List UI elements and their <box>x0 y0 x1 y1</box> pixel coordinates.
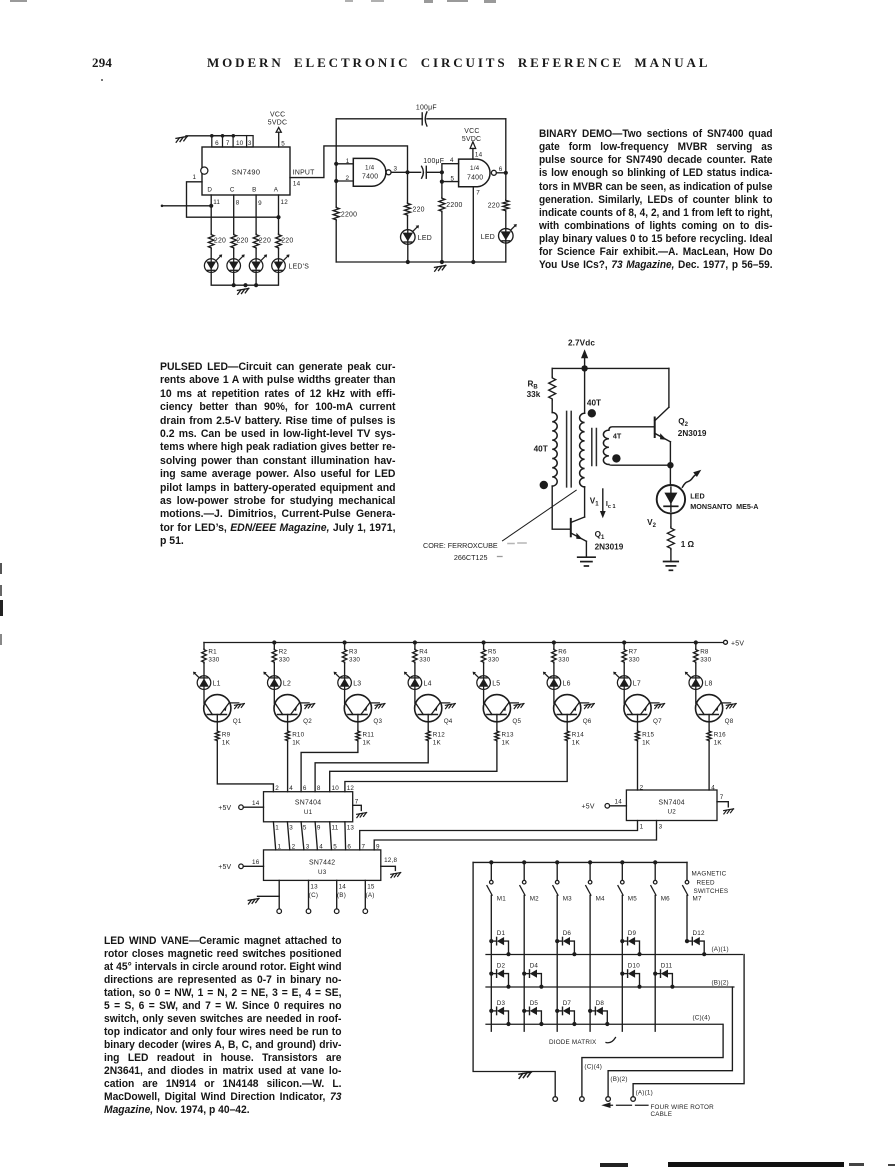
svg-text:(C)(4): (C)(4) <box>693 1014 711 1021</box>
svg-text:9: 9 <box>376 843 380 850</box>
svg-text:INPUT: INPUT <box>293 170 315 177</box>
svg-text:FOUR WIRE ROTOR: FOUR WIRE ROTOR <box>651 1104 715 1111</box>
svg-text:L6: L6 <box>563 680 571 687</box>
svg-text:220: 220 <box>236 238 248 245</box>
resistor 2200 no.2 (G2 input branch) <box>439 182 463 262</box>
svg-text:2: 2 <box>346 175 350 182</box>
resistor R1 330 <box>202 643 220 664</box>
svg-text:1K: 1K <box>433 739 442 746</box>
svg-text:R9: R9 <box>222 732 231 739</box>
G2 pin 7 stub to bottom rail <box>473 187 480 262</box>
svg-text:330: 330 <box>208 656 219 663</box>
wire Q4 base down <box>427 715 429 731</box>
MVBR left rail <box>335 119 337 262</box>
wire stub into pin 11 column <box>161 205 212 208</box>
reed switch matrix top rail <box>473 860 687 864</box>
phasing dot primary <box>540 481 548 489</box>
svg-text:L2: L2 <box>283 680 291 687</box>
svg-text:1K: 1K <box>292 739 301 746</box>
svg-text:4: 4 <box>289 785 293 792</box>
G2 pin 14 stub to VCC <box>473 149 483 160</box>
matrix row (B)(2) <box>486 979 734 987</box>
capacitor 100uF (coupling, middle) <box>422 158 445 178</box>
transistor Q2 2N3019 <box>655 407 707 442</box>
svg-text:1: 1 <box>278 843 282 850</box>
primary winding 40T (left) <box>534 400 558 486</box>
svg-text:8: 8 <box>236 200 240 207</box>
svg-text:3: 3 <box>289 825 293 832</box>
U3 pin 13 (C) terminal <box>306 880 318 913</box>
svg-text:+5V: +5V <box>582 804 595 811</box>
U2 pin 7 to ground <box>717 794 734 814</box>
svg-text:L1: L1 <box>213 680 221 687</box>
svg-text:LED: LED <box>690 491 704 500</box>
diode D3 <box>489 1000 510 1026</box>
svg-text:3: 3 <box>306 843 310 850</box>
wire Q8 base down <box>708 715 710 731</box>
wire secondary bottom to Q1 collector <box>584 487 586 517</box>
wire left bus to ground terminal <box>473 862 555 1096</box>
MVBR bottom rail <box>336 260 506 264</box>
U3 top pin labels 1-7,9 <box>278 843 381 850</box>
U2 top pin labels <box>640 785 716 792</box>
wire row B to terminal (B)(2) <box>608 987 732 1097</box>
node on D column <box>209 204 213 208</box>
svg-text:D2: D2 <box>497 963 506 970</box>
svg-text:14: 14 <box>339 884 347 891</box>
G1 output wire pin 3 <box>391 166 421 173</box>
VCC 5VDC supply arrow (G2) <box>462 128 481 149</box>
supply arrow 2.7Vdc <box>581 349 588 368</box>
resistor R11 1K <box>356 731 375 747</box>
svg-text:330: 330 <box>558 656 569 663</box>
svg-text:100μF: 100μF <box>423 158 444 165</box>
svg-text:330: 330 <box>279 656 290 663</box>
U3 pin 14 (B) terminal <box>334 880 346 913</box>
LED indicator 4 (counter) <box>272 254 290 272</box>
diode D6 <box>555 930 576 956</box>
wire Q5 base to U1 pin 10 <box>330 741 497 792</box>
svg-text:U1: U1 <box>304 809 313 816</box>
svg-text:14: 14 <box>615 798 623 805</box>
wire R7 to L7 <box>623 663 625 676</box>
svg-text:5: 5 <box>303 825 307 832</box>
resistor 220 (bit D) <box>208 234 226 249</box>
svg-text:220: 220 <box>259 238 271 245</box>
label MAGNETIC REED SWITCHES <box>692 871 729 895</box>
svg-text:4T: 4T <box>613 431 622 440</box>
wire R2 to L2 <box>273 663 275 676</box>
wire L2 to Q2 <box>273 689 275 703</box>
VCC 5VDC supply arrow (counter) <box>268 112 287 133</box>
svg-text:(A): (A) <box>366 892 375 899</box>
svg-text:V1: V1 <box>590 496 599 507</box>
label CORE: FERROXCUBE 266CT125 <box>423 541 526 562</box>
node emitter/4T/LED <box>667 462 673 468</box>
transistor Q4 <box>415 695 453 726</box>
svg-text:(C): (C) <box>309 892 318 899</box>
LED MONSANTO ME5-A <box>657 485 685 513</box>
svg-text:9: 9 <box>317 825 321 832</box>
reed switch M5 <box>618 862 637 902</box>
wire Q6 emitter to ground <box>579 702 589 704</box>
transistor Q3 <box>344 695 382 726</box>
svg-text:Q6: Q6 <box>583 718 592 725</box>
LED L3 <box>334 672 362 690</box>
svg-text:Q3: Q3 <box>373 718 382 725</box>
wire Q7 base down <box>637 715 639 731</box>
resistor 220 no.1 (G1 output branch) <box>405 172 425 229</box>
caption: LED WIND VANE <box>104 935 341 1118</box>
svg-text:5: 5 <box>451 176 455 183</box>
capacitor 100uF (feedback, top) <box>416 104 437 126</box>
svg-text:9: 9 <box>258 200 262 207</box>
MVBR right rail <box>505 119 507 262</box>
LED 1 (MVBR) <box>401 225 432 244</box>
svg-text:R12: R12 <box>433 732 445 739</box>
label V1 and Ic1 with arrow <box>590 489 616 518</box>
transistor Q1 <box>204 695 242 726</box>
right rail to Q2 collector <box>668 368 670 407</box>
svg-text:D6: D6 <box>563 930 572 937</box>
svg-text:11: 11 <box>332 825 339 832</box>
LED indicator 3 (counter) <box>249 254 267 272</box>
wire Q2 emitter to node <box>669 442 671 465</box>
LED L4 <box>404 672 432 690</box>
wire L3 to Q3 <box>344 689 346 703</box>
pin 5 stub to VCC <box>279 132 286 147</box>
svg-text:R5: R5 <box>488 649 497 656</box>
svg-text:R3: R3 <box>349 649 358 656</box>
wire resistor to LED x4 <box>211 249 278 259</box>
svg-text:1/4: 1/4 <box>470 165 480 172</box>
resistor R15 1K <box>635 731 654 747</box>
IC U1 SN7404 <box>264 792 353 822</box>
wire Q3 base to U1 pin 6 <box>301 741 358 792</box>
diode D7 <box>555 1000 576 1026</box>
svg-text:A: A <box>274 187 279 194</box>
reed switch M1 <box>487 862 506 902</box>
svg-text:D: D <box>207 187 212 194</box>
diode D11 <box>653 963 674 989</box>
diode D4 <box>522 963 543 989</box>
svg-text:R7: R7 <box>629 649 638 656</box>
wire R6 to L6 <box>553 663 555 676</box>
resistor R3 330 <box>342 643 360 664</box>
svg-text:R2: R2 <box>279 649 288 656</box>
wire Q4 emitter to ground <box>440 702 450 704</box>
resistor R10 1K <box>286 731 305 747</box>
label DIODE MATRIX with pointer <box>549 1038 616 1047</box>
wire Q1 emitter to ground <box>229 702 239 704</box>
svg-text:1K: 1K <box>222 739 231 746</box>
wire node to G2 pin 5 <box>440 172 459 183</box>
wire column M1 <box>490 895 492 1031</box>
LED L6 <box>543 672 571 690</box>
svg-text:220: 220 <box>488 203 500 210</box>
resistor R8 330 <box>694 643 712 664</box>
svg-text:6: 6 <box>499 166 503 173</box>
secondary winding 40T (right) <box>580 368 601 487</box>
svg-text:2: 2 <box>275 785 279 792</box>
svg-text:1: 1 <box>346 158 350 165</box>
labels LED / MONSANTO ME5-A <box>690 491 758 511</box>
svg-text:R13: R13 <box>502 732 514 739</box>
ground (Q5 emitter) <box>514 704 524 709</box>
wire column A <box>278 195 280 234</box>
left branch down to Q1 base <box>552 486 571 529</box>
svg-text:5VDC: 5VDC <box>268 119 287 126</box>
resistor R5 330 <box>481 643 499 664</box>
NAND gate G1 1/4 7400 <box>353 158 391 186</box>
svg-text:M1: M1 <box>497 895 506 902</box>
svg-text:M3: M3 <box>563 895 572 902</box>
svg-text:D10: D10 <box>628 963 640 970</box>
wire R4 to L4 <box>414 663 416 676</box>
ground (Q1 emitter) <box>578 541 595 566</box>
svg-text:M7: M7 <box>693 895 702 902</box>
pin number labels 11 8 9 12 <box>213 199 288 207</box>
LED indicator 2 (counter) <box>227 254 245 272</box>
svg-text:5VDC: 5VDC <box>462 136 481 143</box>
ground (LED branch) <box>664 550 679 571</box>
resistor R12 1K <box>426 731 445 747</box>
resistor 220 (bit A) <box>276 234 294 249</box>
wire Q6 base down <box>566 715 568 731</box>
svg-text:2N3019: 2N3019 <box>595 542 624 551</box>
svg-text:220: 220 <box>214 238 226 245</box>
svg-text:2N3019: 2N3019 <box>678 429 707 438</box>
wire column M2 <box>523 895 525 1031</box>
svg-text:3: 3 <box>248 140 252 147</box>
IC U3 SN7442 <box>264 850 381 881</box>
svg-text:R10: R10 <box>292 732 304 739</box>
node on A column <box>276 215 280 219</box>
wire Q5 emitter to ground <box>509 702 519 704</box>
svg-text:D5: D5 <box>530 1000 539 1007</box>
svg-text:SN7404: SN7404 <box>295 800 321 807</box>
LED L1 <box>193 672 221 690</box>
diode D2 <box>489 963 510 989</box>
wire R1 to L1 <box>203 663 205 676</box>
svg-text:7: 7 <box>362 843 366 850</box>
svg-text:(B)(2): (B)(2) <box>610 1076 627 1083</box>
diode D12 <box>685 930 706 956</box>
wire Q5 base down <box>496 715 498 731</box>
svg-text:LED: LED <box>481 234 495 241</box>
svg-text:2200: 2200 <box>446 202 462 209</box>
wire Q1 base to U1 pin 2 <box>217 741 273 792</box>
resistor R4 330 <box>413 643 431 664</box>
transistor Q2 <box>274 695 312 726</box>
svg-text:Q2: Q2 <box>678 417 688 428</box>
+5V rail (top) <box>204 640 723 644</box>
svg-text:11: 11 <box>213 199 220 206</box>
svg-text:Q5: Q5 <box>512 718 521 725</box>
svg-text:(B): (B) <box>337 892 346 899</box>
pin 1 loop wire to pin 12 column <box>187 174 279 217</box>
ground (Q2 emitter) <box>305 704 315 709</box>
svg-text:7: 7 <box>476 189 480 196</box>
ground (Q8 emitter) <box>726 704 736 709</box>
svg-text:13: 13 <box>310 884 318 891</box>
U1 pin 14 +5V <box>218 800 263 812</box>
resistor R2 330 <box>272 643 290 664</box>
svg-text:8: 8 <box>317 785 321 792</box>
svg-text:D1: D1 <box>497 930 506 937</box>
svg-text:SWITCHES: SWITCHES <box>694 888 729 895</box>
wire column B <box>255 195 257 234</box>
svg-text:40T: 40T <box>587 398 601 407</box>
caption: PULSED LED <box>160 361 395 549</box>
wire column D <box>210 195 212 234</box>
svg-text:100μF: 100μF <box>416 104 437 111</box>
svg-text:7: 7 <box>226 140 230 147</box>
svg-text:L7: L7 <box>633 680 641 687</box>
NAND gate G2 1/4 7400 <box>459 159 497 187</box>
G1 input stubs pins 1,2 <box>336 164 353 181</box>
wire U2 pin3 to U3 pin9 <box>374 821 656 850</box>
svg-text:MONSANTO ME5-A: MONSANTO ME5-A <box>690 502 758 511</box>
svg-text:14: 14 <box>293 180 301 187</box>
pin boxes 6 7 10 3 on SN7490 <box>212 136 253 147</box>
wire to rotor terminal (ground) <box>278 896 280 908</box>
top rail <box>552 367 669 369</box>
diode D1 <box>489 930 510 956</box>
MVBR top rail right of cap <box>427 118 506 120</box>
node supply/top rail <box>581 365 587 371</box>
svg-text:(B)(2): (B)(2) <box>712 979 729 986</box>
four wire rotor cable arrow <box>601 1102 648 1108</box>
resistor 220 (bit C) <box>231 234 249 249</box>
U2 pin 14 +5V <box>582 798 627 810</box>
svg-text:1K: 1K <box>714 739 723 746</box>
svg-text:(C)(4): (C)(4) <box>584 1064 602 1071</box>
svg-text:DIODE MATRIX: DIODE MATRIX <box>549 1039 597 1046</box>
svg-text:12: 12 <box>347 785 355 792</box>
rotor cable terminals <box>553 1097 635 1102</box>
svg-text:B: B <box>252 187 256 194</box>
U3 pin 15 (A) terminal <box>363 880 375 913</box>
LED L2 <box>263 672 291 690</box>
svg-text:4: 4 <box>450 157 454 164</box>
svg-text:16: 16 <box>252 859 260 866</box>
svg-text:10: 10 <box>332 785 340 792</box>
svg-text:1K: 1K <box>502 739 511 746</box>
wire L1 to Q1 <box>203 689 205 703</box>
svg-text:Q8: Q8 <box>725 718 734 725</box>
wire cap to G2 node <box>426 171 442 173</box>
transistor Q1 2N3019 <box>571 517 624 551</box>
phasing dot secondary <box>588 409 596 417</box>
resistor R14 1K <box>565 731 584 747</box>
wire LED1 to bottom rail <box>407 244 409 262</box>
svg-text:L3: L3 <box>353 680 361 687</box>
wire row C to terminal (C)(4) <box>582 1024 723 1096</box>
svg-text:13: 13 <box>347 825 355 832</box>
resistor 1 ohm <box>667 527 694 550</box>
svg-text:R15: R15 <box>642 732 654 739</box>
svg-text:33k: 33k <box>527 390 541 399</box>
wire Q2 emitter to ground <box>299 702 309 704</box>
svg-text:M4: M4 <box>596 895 605 902</box>
resistor R6 330 <box>552 643 570 664</box>
reed switch M6 <box>651 862 670 902</box>
svg-text:Q4: Q4 <box>444 718 453 725</box>
wire column M7 <box>686 895 688 941</box>
svg-text:RB: RB <box>528 380 539 391</box>
svg-text:14: 14 <box>252 800 260 807</box>
svg-text:SN7490: SN7490 <box>232 168 261 177</box>
svg-text:L5: L5 <box>492 680 500 687</box>
svg-text:6: 6 <box>215 140 219 147</box>
svg-text:7400: 7400 <box>362 174 378 181</box>
svg-text:(A)(1): (A)(1) <box>636 1089 653 1096</box>
wire L6 to Q6 <box>553 689 555 703</box>
svg-text:12: 12 <box>281 199 289 206</box>
svg-text:CABLE: CABLE <box>651 1111 673 1118</box>
IC U-counter SN7490 <box>201 147 290 195</box>
matrix row (C)(4) <box>486 1014 722 1024</box>
svg-text:5: 5 <box>333 843 337 850</box>
svg-text:L4: L4 <box>424 680 432 687</box>
svg-text:1: 1 <box>275 825 279 832</box>
core callout line <box>503 490 577 541</box>
svg-text:1 Ω: 1 Ω <box>681 540 695 549</box>
transistor Q8 <box>696 695 734 726</box>
svg-text:Q7: Q7 <box>653 718 662 725</box>
output letters D C B A <box>207 187 278 194</box>
svg-text:12,8: 12,8 <box>384 857 397 864</box>
diode D5 <box>522 1000 543 1026</box>
svg-text:D11: D11 <box>661 963 673 970</box>
light emission squiggle arrow <box>682 470 701 487</box>
resistor R7 330 <box>622 643 640 664</box>
resistor R9 1K <box>215 731 230 747</box>
svg-text:LED: LED <box>418 235 432 242</box>
core (feedback winding) <box>592 429 597 466</box>
wire L8 to Q8 <box>695 689 697 703</box>
scan edge artifacts left <box>0 563 2 574</box>
scan artifact: next page edge bottom right <box>600 1163 628 1167</box>
svg-text:330: 330 <box>349 656 360 663</box>
reed switch M2 <box>520 862 539 902</box>
svg-text:6: 6 <box>303 785 307 792</box>
svg-text:330: 330 <box>419 656 430 663</box>
wire Q8 base to U2 pin 4 <box>708 741 710 790</box>
svg-text:330: 330 <box>488 656 499 663</box>
svg-text:M2: M2 <box>530 895 539 902</box>
wire Q2 base down <box>287 715 289 731</box>
wire R5 to L5 <box>483 663 485 676</box>
+5V terminal <box>724 640 745 647</box>
ground (rotor cable shield) <box>519 1072 531 1078</box>
MVBR top rail left of cap <box>336 118 422 120</box>
svg-text:VCC: VCC <box>464 128 479 135</box>
svg-text:1: 1 <box>640 824 644 831</box>
svg-text:10: 10 <box>236 140 244 147</box>
svg-text:220: 220 <box>281 238 293 245</box>
IC U2 SN7404 <box>626 790 717 821</box>
wire column M4 <box>589 895 591 1031</box>
resistor 220 (bit B) <box>253 234 271 249</box>
node at 2200 no.2 top <box>440 170 444 174</box>
svg-text:Q1: Q1 <box>595 530 605 541</box>
wire Q7 emitter to ground <box>649 702 659 704</box>
page header <box>0 56 895 58</box>
wire U2 pin1 to U3 pin7 <box>360 821 638 850</box>
resistor R16 1K <box>707 731 726 747</box>
